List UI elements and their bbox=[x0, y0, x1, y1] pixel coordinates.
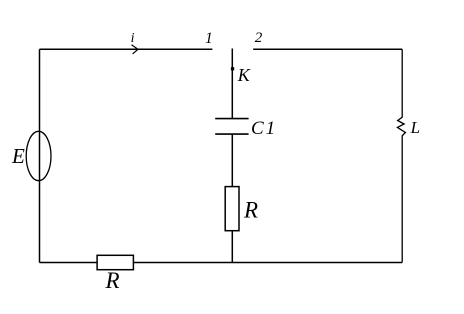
svg-text:C1: C1 bbox=[251, 118, 277, 139]
svg-text:E: E bbox=[11, 144, 25, 168]
svg-text:R: R bbox=[243, 198, 258, 223]
svg-text:1: 1 bbox=[205, 30, 213, 47]
svg-text:K: K bbox=[237, 65, 251, 85]
svg-text:R: R bbox=[105, 268, 120, 293]
svg-text:L: L bbox=[410, 118, 420, 137]
svg-text:i: i bbox=[131, 31, 135, 46]
svg-text:2: 2 bbox=[255, 30, 263, 46]
